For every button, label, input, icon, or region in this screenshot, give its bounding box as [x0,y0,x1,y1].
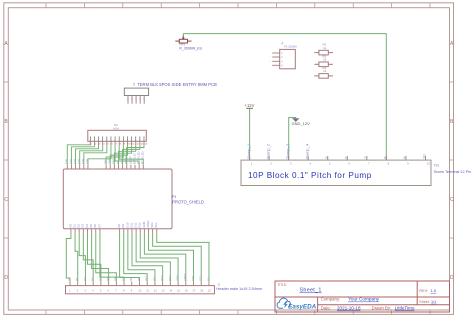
svg-text:TITLE:: TITLE: [277,283,287,287]
svg-text:D6: D6 [93,224,97,228]
svg-text:5: 5 [329,162,331,166]
svg-text:5: 5 [143,98,145,101]
svg-text:7: 7 [363,156,368,159]
svg-text:AREF: AREF [183,273,187,281]
svg-text:D12: D12 [134,222,138,227]
svg-text:8: 8 [120,144,122,146]
svg-text:4: 4 [309,162,311,166]
svg-text:PROTO_SHIELD: PROTO_SHIELD [172,200,204,205]
svg-text:D1: D1 [75,277,79,281]
svg-text:Header male 1x19 2.54mm: Header male 1x19 2.54mm [216,287,262,291]
wire +12V to TB1 pin 1 [249,108,251,160]
border row ticks left [4,82,9,238]
svg-text:D13: D13 [138,222,142,227]
EasyEDA logo [277,298,317,310]
svg-text:D2: D2 [77,224,81,228]
P1 bottom-left pins D0-D7 [68,224,101,233]
svg-text:1.0: 1.0 [431,288,437,293]
svg-text:3: 3 [290,162,292,166]
svg-text:1: 1 [91,144,93,146]
svg-text:1: 1 [127,98,129,101]
svg-text:3V3: 3V3 [120,159,124,164]
row letters right A B C D [450,41,454,281]
svg-text:12: 12 [154,289,157,293]
P1 bottom-right pins D8-SCL [117,220,158,233]
wire bus P1 bottom-right to J2 [120,233,209,282]
svg-text:C: C [4,197,8,203]
svg-text:7: 7 [116,144,118,146]
svg-text:6: 6 [344,156,349,159]
svg-text:14: 14 [169,289,172,293]
wire RP1 wiper to TB1 pin 8 [183,34,386,161]
svg-text:1k: 1k [323,46,327,50]
svg-text:D0: D0 [67,277,71,281]
svg-text:10: 10 [128,144,131,146]
svg-text:6: 6 [108,289,110,293]
svg-text:8: 8 [388,162,390,166]
svg-text:D3: D3 [91,277,95,281]
svg-text:9: 9 [124,144,126,146]
svg-text:GND: GND [142,222,146,228]
svg-text:D13: D13 [168,275,172,280]
power flag +12V [245,103,255,108]
wire bus P2 to P1 top-right [106,145,144,165]
svg-text:D11: D11 [129,222,133,227]
svg-text:TERM BLK 5POS SIDE ENTRY 8MM P: TERM BLK 5POS SIDE ENTRY 8MM PCB [137,82,217,87]
svg-text:1k: 1k [323,69,327,73]
svg-text:10: 10 [422,154,427,159]
svg-text:4: 4 [92,289,94,293]
svg-text:U1: U1 [132,82,136,86]
TB1 pins 1-10 with Pump labels [246,143,430,165]
header J2 1x19 bottom [66,273,215,294]
svg-text:C: C [450,197,454,203]
svg-text:~: ~ [269,57,271,59]
border column ticks top [46,3,430,8]
svg-text:10: 10 [138,289,141,293]
module P1 PROTO_SHIELD body [63,169,172,229]
svg-text:Sheet:: Sheet: [419,300,429,304]
resistor R1 [314,50,333,55]
svg-text:3: 3 [281,60,283,64]
svg-text:15: 15 [177,289,180,293]
svg-text:18: 18 [200,289,203,293]
svg-text:7: 7 [115,289,117,293]
svg-text:H14: H14 [113,127,119,131]
svg-text:2: 2 [95,144,97,146]
svg-text:5: 5 [107,144,109,146]
ground symbol GND_12V [293,118,299,122]
svg-text:Pump_2: Pump_2 [265,143,270,159]
svg-text:4: 4 [139,98,141,101]
terminal block TB1 10P body [241,160,431,185]
potentiometer RP1 R_3096W_EU [175,35,191,43]
svg-text:17: 17 [193,289,196,293]
svg-text:~: ~ [269,61,271,63]
svg-text:EasyEDA: EasyEDA [288,303,316,310]
svg-text:3: 3 [84,289,86,293]
svg-text:Your Company: Your Company [348,297,379,302]
svg-text:D11: D11 [152,276,156,281]
svg-text:D12: D12 [160,275,164,280]
svg-text:Pump_4: Pump_4 [304,143,309,159]
svg-text:Drawn By:: Drawn By: [372,306,391,311]
svg-text:2: 2 [77,289,79,293]
svg-text:AD3: AD3 [77,158,81,164]
title block outline [275,281,450,312]
svg-text:6: 6 [112,144,114,146]
svg-text:9: 9 [131,289,133,293]
svg-text:GND: GND [175,275,179,281]
svg-text:A: A [4,41,8,47]
svg-text:1: 1 [281,51,283,55]
svg-text:10: 10 [427,162,431,166]
svg-text:D10: D10 [145,275,149,280]
svg-text:BAT 3.3V: BAT 3.3V [132,153,136,164]
border column ticks bottom [46,310,430,314]
svg-text:TB1: TB1 [434,163,440,167]
svg-text:D2: D2 [83,277,87,281]
svg-text:1k: 1k [323,58,327,62]
svg-text:5: 5 [100,289,102,293]
svg-text:D0: D0 [68,224,72,228]
svg-text:D8: D8 [117,224,121,228]
svg-text:D4: D4 [85,224,89,228]
svg-text:Screw Terminal 12 Pin: Screw Terminal 12 Pin [434,170,472,174]
P1 top-left pins A0-A5 [65,158,90,169]
svg-text:J2: J2 [217,282,221,286]
svg-text:14: 14 [145,144,148,146]
svg-text:AD4: AD4 [81,158,85,164]
svg-text:VIN: VIN [104,160,108,165]
svg-text:D1: D1 [72,224,76,228]
svg-text:2: 2 [281,55,283,59]
svg-text:Pump_3: Pump_3 [285,143,290,159]
svg-text:4: 4 [281,64,283,68]
svg-text:LittleTimo: LittleTimo [395,306,415,311]
svg-text:1/1: 1/1 [431,300,436,304]
svg-text:3: 3 [135,98,137,101]
svg-text:PC13 LED: PC13 LED [137,151,141,164]
svg-text:AREF: AREF [146,220,150,228]
header P2 1x14 [88,130,148,145]
svg-text:2: 2 [270,162,272,166]
svg-text:13: 13 [140,144,143,146]
svg-text:Date:: Date: [321,306,331,311]
svg-text:~: ~ [269,65,271,67]
svg-text:IOREF: IOREF [128,156,132,165]
svg-text:P1: P1 [172,195,176,199]
svg-text:3: 3 [99,144,101,146]
svg-text:D10: D10 [125,222,129,227]
svg-text:PJ-202BH: PJ-202BH [284,45,297,49]
svg-text:19: 19 [208,289,211,293]
wire bus P2 to P1 top-left [67,145,111,165]
svg-text:AD5: AD5 [85,158,89,164]
svg-text:PC13 LED: PC13 LED [141,151,145,164]
svg-text:D9: D9 [121,224,125,228]
svg-text:2: 2 [131,98,133,101]
svg-text:AD2: AD2 [73,158,77,164]
svg-text:AD0: AD0 [65,158,69,164]
svg-text:1: 1 [251,162,253,166]
svg-text:2021-10-18: 2021-10-18 [337,306,361,311]
svg-text:9: 9 [407,162,409,166]
svg-text:B: B [4,119,8,125]
resistor R2 [314,62,333,67]
svg-text:Pump_1: Pump_1 [246,143,251,159]
svg-text:AD1: AD1 [69,158,73,164]
svg-text:Company:: Company: [321,297,341,302]
svg-text:4: 4 [103,144,105,146]
svg-text:13: 13 [162,289,165,293]
svg-text:~: ~ [269,53,271,55]
svg-text:1: 1 [69,289,71,293]
svg-text:8: 8 [123,289,125,293]
wire TB1 pin 3 to GND_12V [289,118,296,161]
svg-text:11: 11 [132,144,135,146]
resistor R3 [314,74,333,79]
terminal block U1 TERM BLK 5POS [124,88,148,104]
svg-text:5V: 5V [206,277,210,280]
connector J4 power jack 4-pin [269,49,295,68]
svg-text:REV:: REV: [419,289,428,293]
svg-text:D5: D5 [89,224,93,228]
svg-text:16: 16 [185,289,188,293]
svg-text:GND_12V: GND_12V [292,121,311,126]
svg-text:SDA: SDA [191,275,195,281]
svg-text:12: 12 [136,144,139,146]
svg-text:R_3096W_EU: R_3096W_EU [179,46,202,50]
svg-text:7: 7 [368,162,370,166]
svg-text:Sheet_1: Sheet_1 [300,288,322,294]
svg-text:10P Block 0.1" Pitch for Pump: 10P Block 0.1" Pitch for Pump [248,171,372,180]
svg-text:11: 11 [146,289,149,293]
svg-text:SCL: SCL [154,222,158,228]
border row ticks right [450,82,454,238]
svg-text:SCL: SCL [199,275,203,281]
row letters left A B C D [4,41,8,281]
wire bus P1 bottom-left to J2 [66,233,124,282]
svg-text:D3: D3 [81,224,85,228]
svg-text:D7: D7 [97,224,101,228]
svg-text:SDA: SDA [150,222,154,228]
svg-text:+12V: +12V [245,103,255,108]
svg-text:6: 6 [349,162,351,166]
P1 top-right power pins [104,151,145,169]
svg-text:D: D [4,275,8,281]
svg-text:D: D [450,275,454,281]
